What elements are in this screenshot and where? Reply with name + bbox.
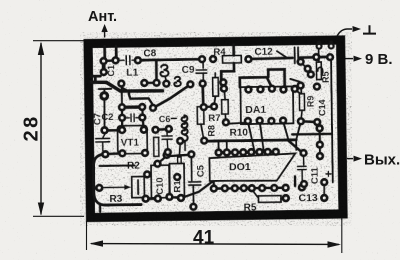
wire big loop [93,154,141,206]
pad O2 [210,102,219,111]
wire pad diag [317,122,319,128]
capacitor C6 plates [162,126,172,149]
wire boxA to pad [214,96,215,104]
pad left of C10 [143,170,152,179]
pad row82 5 [186,80,195,89]
coil squiggle 2 [174,77,181,86]
pad B [111,56,120,65]
pad DA1 bot 4 [279,116,288,125]
resistor body vertical (above R7 label) [213,78,219,97]
bottom-left pad bars [146,197,158,200]
wire R7 to pad [224,114,227,121]
pad row82 4 [162,79,171,88]
capacitor C5 plates [188,156,201,205]
wire J down to L [103,100,106,127]
pad N [149,104,158,113]
pad grid 4 [138,113,147,122]
wire pad A to pad C [102,61,106,72]
wire DA1 pin5 to R9 [295,90,301,94]
resistor body small vertical [154,137,159,156]
pad DA1 bot 3 [267,117,276,126]
pad 9V right [312,53,321,62]
capacitor C12 symbol [277,47,298,63]
pad row82 6 [198,79,207,88]
wire stub [214,73,216,78]
wire C13 pad stub [323,186,325,194]
squiggle n-shape [318,67,323,73]
pad O1 [199,103,208,112]
pad R5 right [281,194,290,203]
wire from pad 203,83 down [201,84,204,106]
IC DO1 outline [209,153,295,181]
pad mid link [162,151,171,160]
wire pad 122,82 down [121,86,123,104]
pad DA1 top 3 [268,84,277,93]
resistor R6 body [316,62,321,80]
wire R10 bus y141 [204,140,296,141]
wire vertical x294 [294,176,297,185]
wire s-loop [121,86,128,92]
wire 9V feed line [249,58,293,59]
wire bus y79.6 [240,77,272,87]
plus sign [326,171,331,176]
wire horizontal y135 [292,133,331,136]
wire R5 leads [252,190,285,200]
capacitor C7 symbol [99,89,111,93]
resistor R9 body [299,94,304,111]
pad in R1 [173,173,182,182]
wire arrow to 9V [344,58,353,60]
capacitor C11 plates [297,154,306,183]
wire second horizontal y97.5 [129,92,154,106]
pads right column [296,57,305,66]
pad D [134,56,143,65]
wire loop stub to bottom bar [99,205,101,211]
coil winding vertical [182,115,188,141]
trimmer R3 arrow [100,186,127,188]
dimension 28 extension lines [33,40,84,42]
wire diag chain top right [290,62,311,82]
board frame [88,40,343,217]
wire loop inner top [100,164,135,167]
capacitor C10 body [151,165,169,198]
wire D to E horizontal [139,59,201,60]
wire right pads vertical [319,128,322,156]
wire DO1 bottom row bar [212,188,288,189]
wire bus stubs [218,140,296,152]
wire DO1 top row bar [216,150,277,154]
pad C [99,68,108,77]
pads DO1 bottom row [210,184,219,193]
pad DA1 top 2 [256,85,265,94]
wire pad pair o-o [204,105,214,108]
wire R8 bottom to bus [201,124,204,139]
wire bus y70.6 [268,69,285,86]
pad C10 top [153,159,162,168]
wire stubs top-right pads [319,42,331,46]
pad E [198,55,207,64]
pad DA1 bot 2 [255,116,264,125]
pad grid 2 [138,103,147,112]
wire stub top bar to pad B [115,46,118,56]
pad DA1 top 5 [290,85,299,94]
pad L [100,126,109,135]
pad A [99,57,108,66]
wire y124 link [226,123,248,124]
wire bus to pad 298 [296,123,301,140]
pad row82 1 [117,79,126,88]
wire pad A to pad B [104,59,116,62]
resistor R7 body [222,100,229,114]
pad Z [187,150,196,159]
wire trace under R4 [221,45,234,88]
capacitor symbol in grid [126,114,139,122]
resistor R1 body [169,163,184,197]
dimension 28 line [40,43,42,215]
resistor R4 body [222,55,241,63]
wire R7 top stub [224,93,227,100]
IC DA1 outline [240,86,293,124]
pad row82 7 [219,78,228,87]
wire diag to C11 top pad [288,140,303,153]
dimension 41 line [91,243,339,246]
wire vertical x157 [155,61,158,82]
ground symbol [363,25,376,33]
wire L to VT1 pad [105,129,122,132]
wire thick from left border [91,81,162,92]
pad out right [298,183,307,192]
wire diag bottom [181,181,214,198]
pad DA1 top 4 [279,85,288,94]
pads bottom-left row [141,194,150,203]
wire bar under R9 [301,121,317,122]
pad H [244,55,253,64]
capacitor C8 symbol [118,56,135,65]
pad DA1 top 1 [244,85,253,94]
pads VT1 [118,126,127,135]
wire antenna arrow [104,28,106,38]
ground tab on left border [91,76,100,81]
trimmer R3 wiper [137,180,139,194]
pad P [220,84,229,93]
2x3 pad grid bars [122,105,142,109]
dimension 41 extension lines [86,221,88,250]
pad 9V border [326,53,335,62]
pad F [209,55,218,64]
wire pad pair右 of VT1 [156,128,169,132]
resistor R5 body [258,196,281,203]
wire right column vertical [331,61,333,182]
wire diag from pad 191,84 [154,85,190,108]
pad Q [222,118,231,127]
wire bottom bar VT1 [105,152,122,155]
wire C10 pad diag [158,155,189,163]
pad topbar 2 [328,42,335,49]
transistor VT1 outline [117,125,147,153]
wire R9 leads [301,88,302,119]
wire coil tail [184,141,186,150]
capacitor C2 symbol [96,132,110,151]
pads DO1 top row [214,148,223,157]
trimmer R3 body [132,176,145,197]
pad U [200,136,209,145]
wire R6 stub [318,50,320,62]
pad row82 3 [152,79,161,88]
wire DA1 to DO1 diagonals [248,121,288,151]
wire arrow to Вых [347,158,353,160]
wire pad 180 stem [179,143,180,156]
pad topbar 1 [315,43,322,50]
capacitor C9 symbol [196,60,207,80]
pad DA1 bot 1 [244,117,253,126]
wire pads 145-157 link [144,82,156,85]
pad J [99,91,109,101]
coil squiggle 1 (L1 winding) [160,65,168,77]
resistor R8 body [197,107,204,125]
wire squiggle to pad 167 [165,77,166,81]
wire out pad link [302,184,304,187]
pad grid 3 [118,113,127,122]
pad row82 2 [140,79,149,88]
minus after C6 [171,117,176,119]
wire stub top bar to pad A [103,47,106,58]
jumper white box above R1 [178,157,182,165]
wire arrow to ground [336,29,352,39]
pad grid 1 [118,103,127,112]
pad R3 arrow start [95,184,104,193]
